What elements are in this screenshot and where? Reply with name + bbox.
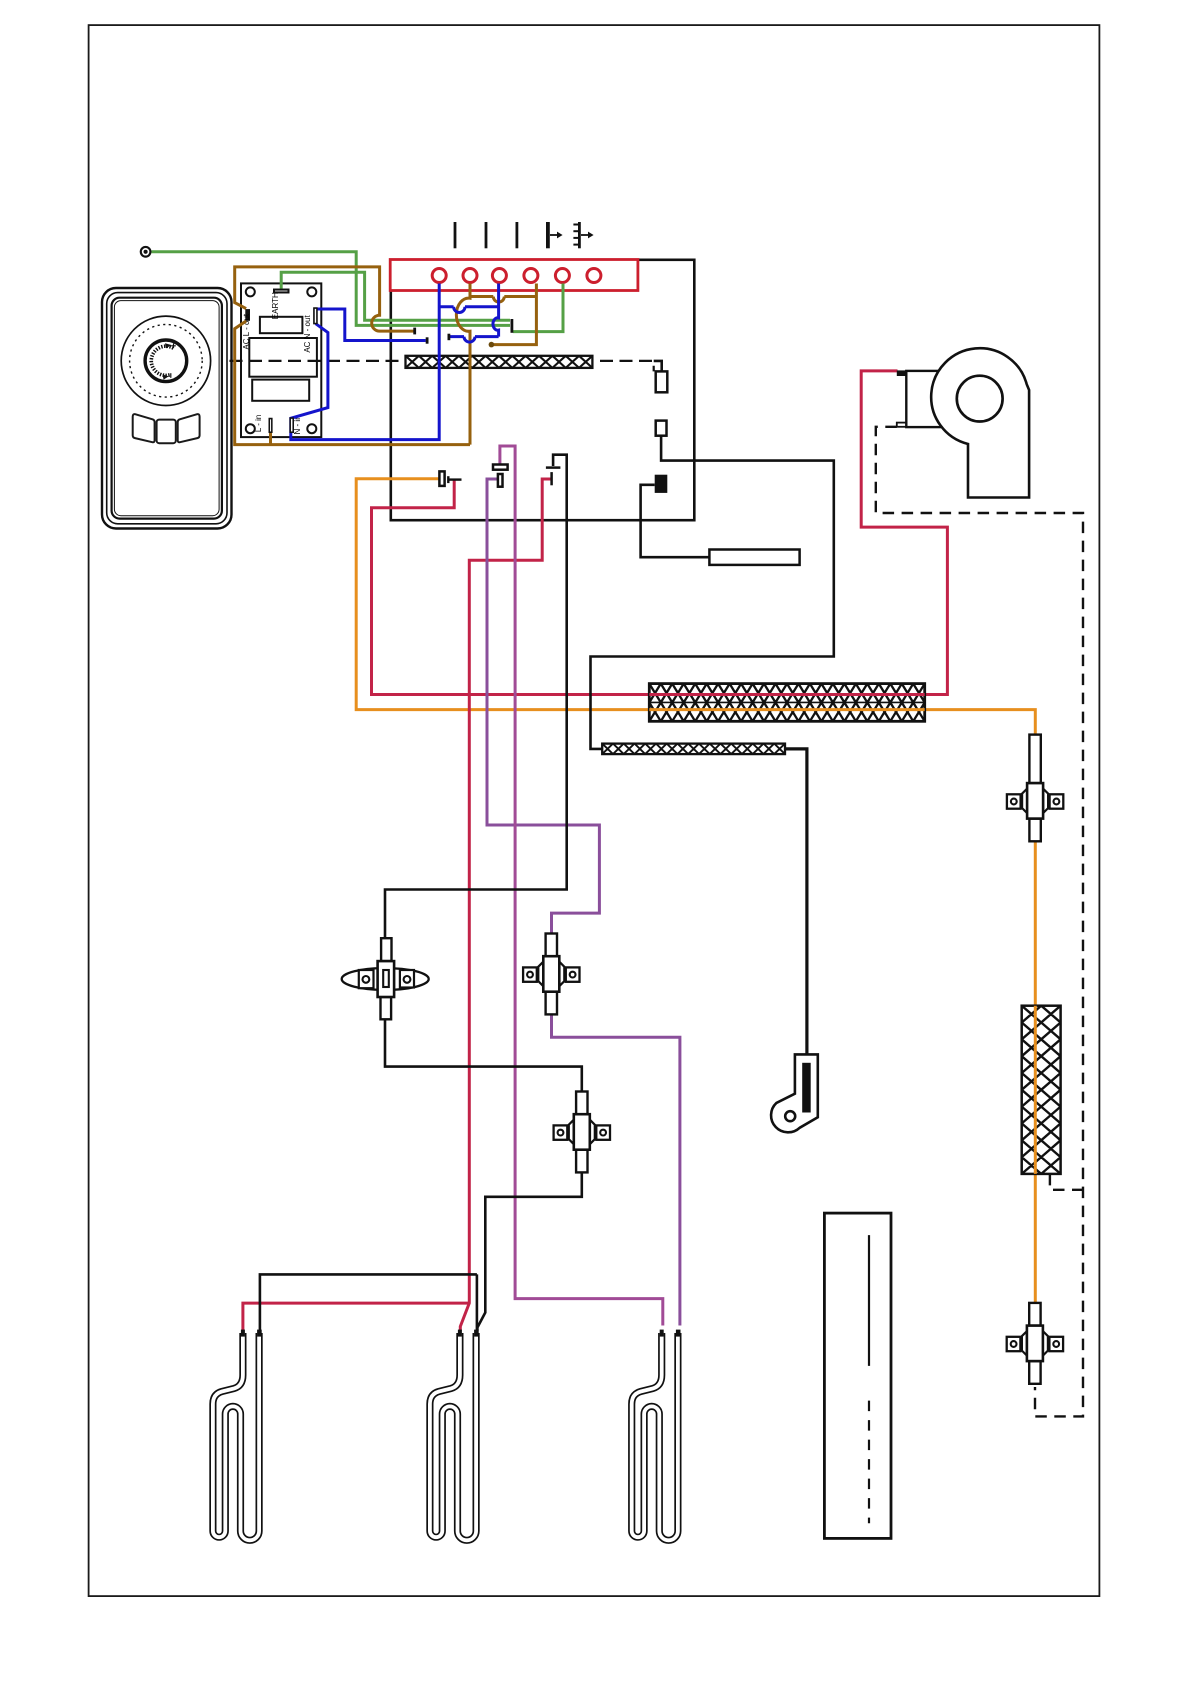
switch B contact pair <box>493 465 508 487</box>
PCB tabs restamp over wires <box>314 308 317 323</box>
wire orange through E2 <box>649 708 924 711</box>
wire crimson element link left <box>243 1303 469 1330</box>
PCB labels <box>242 292 312 434</box>
PCB terminal tab AC L-out <box>245 309 250 321</box>
svg-text:EARTH: EARTH <box>271 292 280 319</box>
junction stud dot <box>489 342 495 348</box>
switch A contact pair <box>439 471 461 486</box>
svg-text:L - in: L - in <box>254 415 263 433</box>
indicator block (neon) <box>655 475 668 493</box>
earth screw terminal <box>140 246 152 258</box>
legend symbol bar 1 <box>454 222 457 248</box>
wire blue terminal 3 vertical <box>493 284 499 337</box>
wire earth green from screw to connector <box>152 252 511 326</box>
wire black fuse chain to relay line <box>591 361 834 749</box>
wire violet switch B lower contact to mid TOC and right element <box>487 479 599 934</box>
mains terminal block <box>390 260 638 291</box>
connector bar blue start <box>447 334 450 341</box>
thermal cut-out TOC1 (orange circuit) <box>1007 735 1063 842</box>
wire orange through E4 <box>1034 1006 1037 1174</box>
PCB terminal tab N-in <box>290 418 293 432</box>
connector bar brown end <box>413 328 416 335</box>
wire blue connector to terminal 3 leg <box>450 337 499 343</box>
wire black element E3 to probe <box>785 749 807 1056</box>
legend symbol bar 3 <box>516 222 519 248</box>
wire brown terminal 2 branch to terminal 4 <box>471 297 537 303</box>
legend symbol bar 5 comb with arrow <box>573 222 593 248</box>
wire crimson switch C to elements <box>460 479 551 1331</box>
heating element E2 (main twin element) <box>649 684 924 722</box>
fan inner circle <box>957 376 1003 422</box>
thermal cut-out TOC2 (bottom right) <box>1007 1303 1063 1384</box>
wire brown AC L-out loop to connector <box>235 267 414 331</box>
wire black indicator block to lamp <box>641 485 710 557</box>
wire black left element to middle element <box>260 1274 477 1330</box>
dashed wire fan to TOC2 return <box>876 427 1083 1417</box>
connector bar green <box>510 319 513 333</box>
page border frame <box>89 25 1100 1596</box>
wire brown terminal 2 down to live feed <box>456 284 470 445</box>
terminal block screw 6 <box>587 269 601 283</box>
thermal fuse link lower <box>656 421 667 436</box>
oven lamp <box>709 550 799 565</box>
svg-text:AC N - out: AC N - out <box>303 315 312 353</box>
PCB terminal tab L-in <box>269 419 272 433</box>
legend symbol bar 4 with arrow <box>548 222 563 248</box>
connector bar blue end <box>426 337 429 343</box>
oven chassis outline <box>391 260 695 520</box>
wire magenta switch B upper contact to right element terminal A <box>500 446 663 1326</box>
switch C contact pair <box>546 468 561 486</box>
tubular element middle <box>430 1330 479 1541</box>
terminal block screw 5 <box>555 269 569 283</box>
PCB terminal tab EARTH <box>274 290 289 293</box>
heating element E1 (inner grill) <box>406 356 593 368</box>
fan motor terminals <box>897 370 908 376</box>
wire black switch C to oval fuse, TOC3, elements <box>385 455 582 1331</box>
wire brown terminal 4 down to stud <box>493 284 536 345</box>
wire earth green connector to terminal 5 <box>513 284 563 332</box>
control PCB <box>241 283 321 437</box>
wire crimson switch A to fan motor <box>372 371 948 695</box>
tubular element right <box>632 1330 681 1541</box>
heating element E4 (fan oven ring, vertical) <box>1022 1006 1061 1174</box>
terminal block screw 3 <box>492 269 506 283</box>
wire brown L-in feed <box>235 321 470 445</box>
timer dial <box>121 316 210 405</box>
wire brown L-in tab drop <box>269 432 272 444</box>
terminal block screw 1 <box>432 269 446 283</box>
PCB terminal tab AC N-out <box>314 308 317 323</box>
terminal block screw 4 <box>524 269 538 283</box>
heating element E3 (base element) <box>602 744 785 755</box>
thermal cut-out TOC3 (black circuit) <box>554 1092 610 1173</box>
dashed wire E4 branch <box>1050 1174 1083 1190</box>
tubular element left <box>213 1330 262 1541</box>
wire orange switch A to fan element and TOC1 <box>356 479 1035 735</box>
wire violet mid TOC to right element terminal B <box>552 1014 680 1325</box>
thermostat probe bracket <box>771 1054 818 1132</box>
thermal cut-out TOC mid (violet circuit) <box>523 934 579 1015</box>
thermostat capillary dashed line <box>230 361 654 372</box>
side panel with centre line <box>824 1213 891 1538</box>
terminal block screw 2 <box>463 269 477 283</box>
legend symbol bar 2 <box>485 222 488 248</box>
fan motor body <box>906 371 958 427</box>
wire earth green from PCB EARTH tab <box>281 272 510 320</box>
fan scroll body <box>931 348 1029 497</box>
timer buttons <box>133 414 200 443</box>
wire blue AC N-out to connector <box>317 309 426 341</box>
timer programmer unit <box>102 288 232 529</box>
oval thermal fuse holder <box>342 938 429 1019</box>
thermal fuse link upper <box>656 371 668 392</box>
wire crimson through E2 <box>649 693 924 696</box>
svg-text:AC L - out: AC L - out <box>242 313 251 349</box>
wire blue bridge terminal1 to terminal3 <box>439 307 499 313</box>
wire orange TOC1 through vertical element to TOC2 <box>1034 841 1037 1303</box>
wire blue terminal 1 to N-in <box>291 284 439 440</box>
